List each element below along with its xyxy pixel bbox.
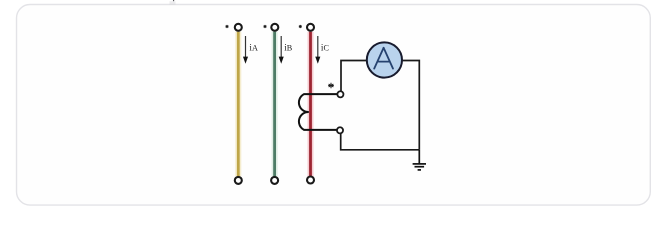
terminal top B bbox=[271, 24, 278, 31]
wire phase A (yellow) bbox=[235, 32, 241, 177]
wire phase B (green) bbox=[272, 32, 278, 177]
CT secondary terminal top bbox=[337, 91, 343, 97]
terminal bottom C bbox=[307, 177, 314, 184]
terminal bottom B bbox=[271, 177, 278, 184]
svg-text:iA: iA bbox=[249, 42, 258, 52]
terminal bottom A bbox=[235, 177, 242, 184]
ammeter label A bbox=[374, 48, 393, 69]
wire: CT secondary bottom terminal down and right to rail bbox=[341, 133, 420, 150]
polarity mark phase B bbox=[264, 25, 267, 28]
wire: CT secondary top terminal to ammeter bbox=[341, 61, 367, 92]
CT secondary polarity mark bbox=[328, 83, 334, 89]
terminal top C bbox=[307, 24, 314, 31]
svg-text:iC: iC bbox=[321, 42, 330, 52]
ammeter U1 bbox=[367, 42, 402, 77]
current arrow iA bbox=[243, 36, 248, 64]
current arrow iC bbox=[315, 36, 320, 64]
current arrow iB bbox=[279, 36, 284, 64]
CT secondary winding bbox=[299, 94, 338, 130]
polarity mark phase A bbox=[226, 25, 229, 28]
svg-text:iB: iB bbox=[284, 42, 293, 52]
polarity mark phase C bbox=[299, 25, 302, 28]
wire phase C (red) bbox=[308, 32, 314, 177]
terminal top A bbox=[235, 24, 242, 31]
ground bbox=[413, 150, 426, 170]
cropped glyph artifact at top edge bbox=[173, 0, 175, 2]
wire: ammeter right to right rail bbox=[402, 61, 419, 150]
CT secondary terminal bottom bbox=[337, 127, 343, 133]
